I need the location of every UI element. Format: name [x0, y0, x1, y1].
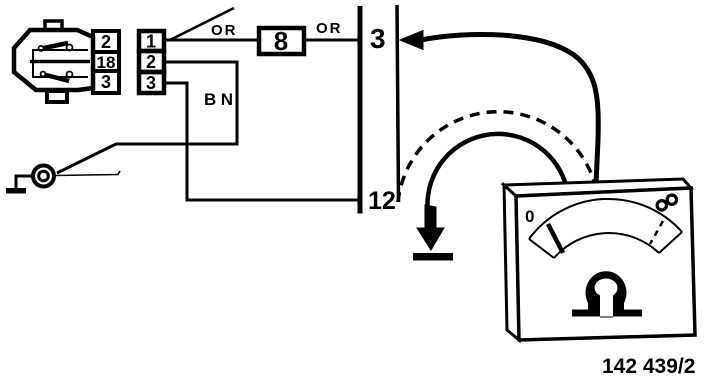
meter infinity symbol — [657, 195, 676, 210]
ohmmeter left face — [504, 185, 519, 340]
connector rail line (terminals 3/12) — [358, 6, 363, 214]
meter needle solid — [548, 224, 563, 253]
svg-text:2: 2 — [146, 52, 156, 72]
svg-text:142 439/2: 142 439/2 — [602, 355, 695, 378]
rail line 2 — [397, 5, 399, 202]
wire pin3 to terminal 12 — [164, 83, 362, 200]
omega symbol — [572, 271, 642, 317]
connector B pin 3 — [139, 72, 164, 93]
meter scale band — [529, 199, 682, 258]
svg-text:3: 3 — [370, 23, 386, 54]
eyelet stub line — [55, 171, 120, 176]
wire box 8 to terminal 3 — [304, 39, 360, 42]
down arrow — [417, 205, 444, 250]
ground bar under arrow — [413, 253, 453, 261]
svg-text:3: 3 — [101, 72, 111, 92]
svg-text:OR: OR — [211, 22, 238, 39]
connector B pin 2 — [139, 51, 164, 72]
svg-text:12: 12 — [368, 187, 396, 215]
sensor pin box 18 — [93, 52, 119, 71]
diagonal stub from pin 1 — [170, 8, 234, 40]
sensor pin contact lower — [41, 72, 73, 82]
wire pin1 to box 8 — [164, 39, 258, 42]
ohmmeter front face — [516, 188, 695, 340]
ground symbol — [6, 188, 26, 194]
ground eyelet terminal — [33, 166, 54, 187]
svg-text:2: 2 — [101, 32, 111, 52]
svg-text:0: 0 — [525, 207, 534, 226]
sensor connector housing — [14, 21, 93, 102]
svg-text:BN: BN — [204, 90, 238, 109]
sensor pin box 2 — [93, 31, 119, 52]
svg-text:OR: OR — [316, 20, 343, 37]
probe arrow to terminal 3 — [400, 31, 423, 50]
meter needle dashed — [650, 221, 663, 244]
svg-text:1: 1 — [146, 32, 156, 52]
sensor connector cavity — [30, 50, 90, 77]
component box 8 — [259, 28, 304, 54]
svg-text:3: 3 — [146, 73, 156, 93]
sensor pin contact upper — [39, 43, 73, 51]
connector B pin 1 — [139, 31, 164, 51]
probe arc to ground — [427, 134, 565, 213]
dashed probe arc to terminal 12 — [398, 112, 594, 202]
sensor pin box 3 — [93, 71, 119, 93]
svg-text:8: 8 — [274, 26, 288, 56]
ground wire — [16, 176, 33, 188]
ohmmeter top face — [504, 179, 691, 196]
wire pin2 BN to ground eyelet — [57, 62, 237, 173]
